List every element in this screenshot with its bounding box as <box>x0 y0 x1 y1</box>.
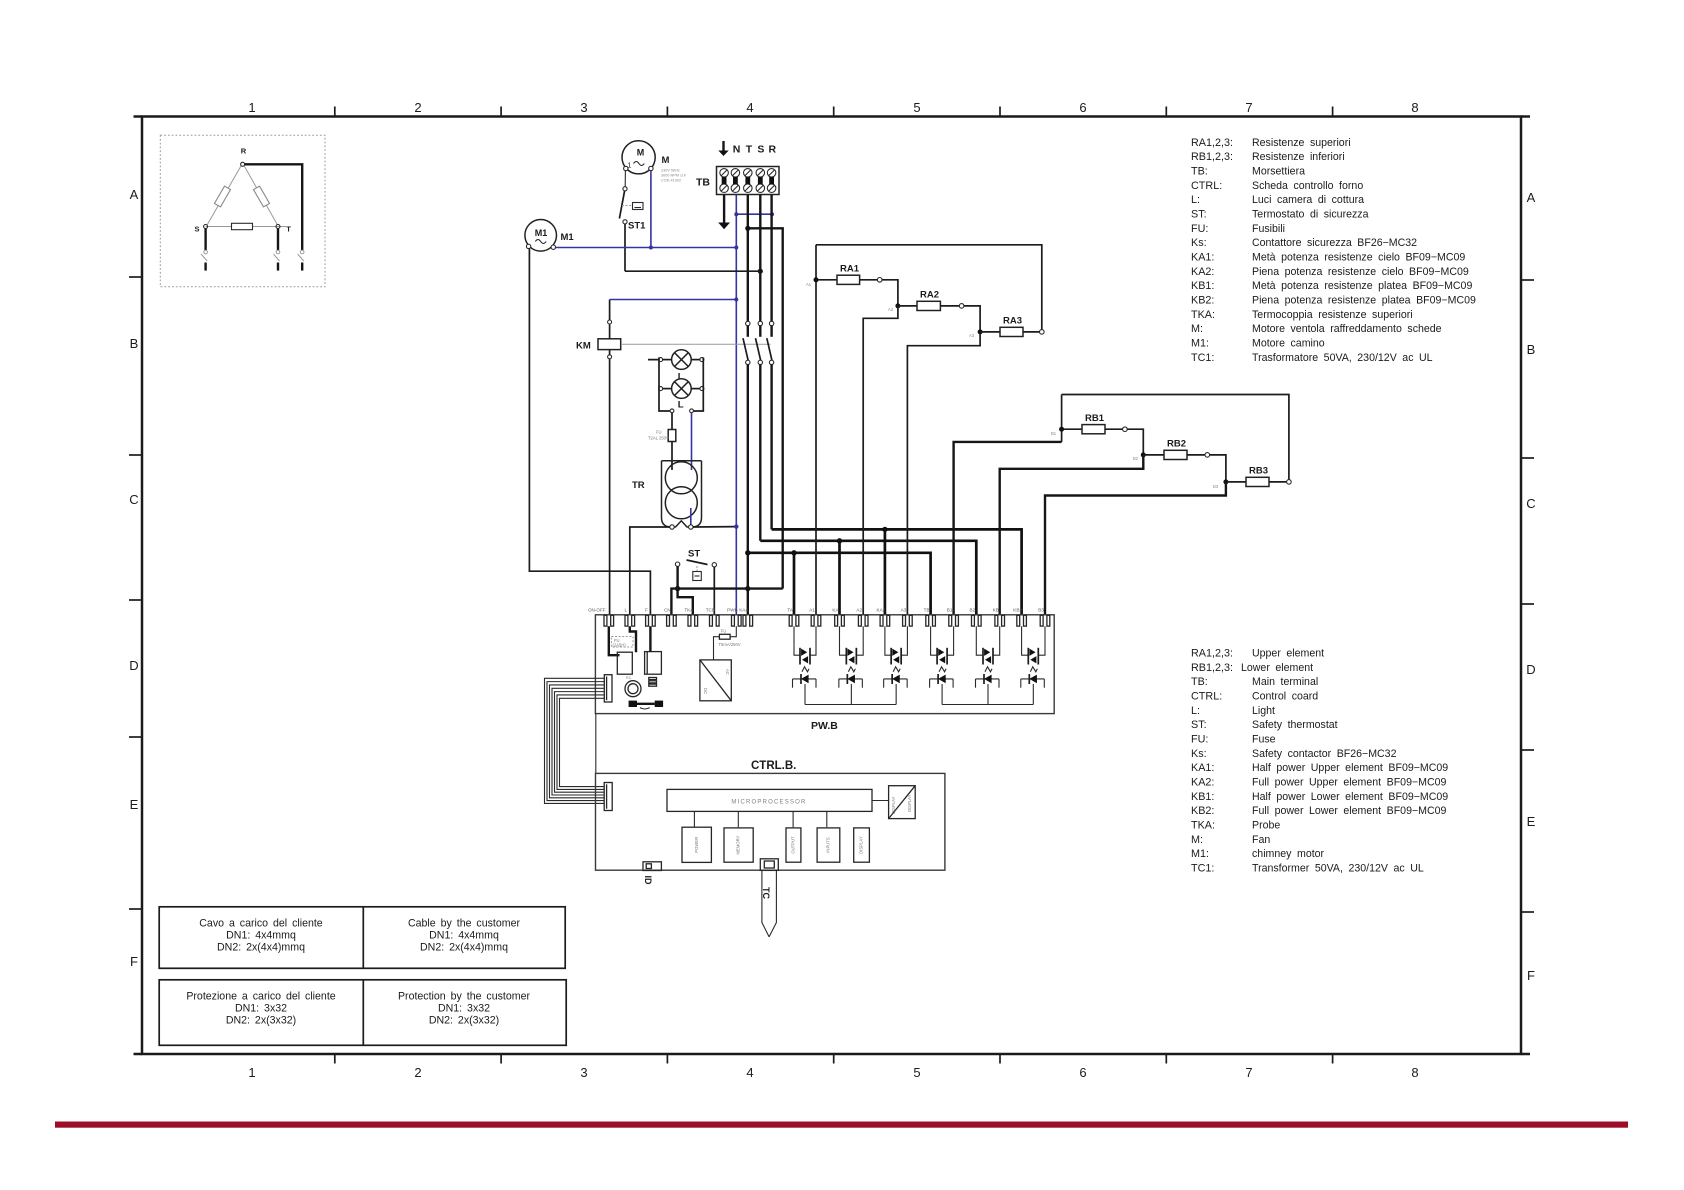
terminal B3 on PW.B <box>1040 615 1043 626</box>
ribbon connector on CTRL.B <box>604 783 612 811</box>
terminal L on PW.B <box>625 615 628 626</box>
gate of B2 <box>985 667 992 672</box>
wire ST1 down <box>624 224 626 271</box>
pin TR secondary right <box>689 525 693 529</box>
bus of B-side triacs <box>942 704 1033 706</box>
lamp lead wires <box>663 359 672 361</box>
svg-text:T: T <box>286 225 291 234</box>
svg-text:KA: KA <box>832 608 839 613</box>
svg-text:ON-OFF: ON-OFF <box>588 608 606 613</box>
svg-text:KB2:: KB2: <box>1191 805 1214 817</box>
wire TR left to L terminal <box>630 527 670 615</box>
svg-text:RB1: RB1 <box>1085 413 1105 424</box>
wire phase run lower (pole1) <box>748 553 931 615</box>
contactor pole 3 <box>769 321 773 325</box>
capacitor stack icon <box>649 678 657 680</box>
svg-text:COD.41302: COD.41302 <box>661 179 681 183</box>
relay K2 box <box>645 652 662 675</box>
resistor RB1 <box>1064 428 1082 430</box>
svg-text:INPUTS: INPUTS <box>826 837 831 853</box>
gate of B3 <box>1030 667 1037 672</box>
svg-text:TKA:: TKA: <box>1191 309 1215 321</box>
svg-text:A3: A3 <box>901 608 907 613</box>
wire S phase down to contactor <box>759 195 761 322</box>
wire B3 drop to bus <box>1032 684 1034 705</box>
svg-text:5: 5 <box>913 100 920 115</box>
ID jumper <box>643 862 661 871</box>
svg-text:RB2: RB2 <box>1167 439 1186 450</box>
svg-text:PW.B: PW.B <box>811 720 838 732</box>
wire L terminal into relay <box>630 626 636 652</box>
svg-text:KA2:: KA2: <box>1191 777 1214 789</box>
svg-text:Protection by the customer: Protection by the customer <box>398 991 530 1003</box>
svg-text:R: R <box>769 144 777 156</box>
svg-text:Probe: Probe <box>1252 820 1280 832</box>
svg-text:Motore camino: Motore camino <box>1252 338 1325 350</box>
lamp bracket left <box>648 357 672 411</box>
wire B3 jog down <box>1045 482 1226 615</box>
safety thermostat ST <box>675 562 679 566</box>
cable spec box (Italian) <box>159 907 565 969</box>
resistor RA2 <box>898 305 917 307</box>
terminal TKA on PW.B <box>688 615 691 626</box>
svg-text:RA3: RA3 <box>1003 316 1022 327</box>
svg-text:OUTPUT: OUTPUT <box>791 836 796 854</box>
svg-text:B3: B3 <box>1213 484 1219 489</box>
disconnect blade at x=278 <box>276 250 280 254</box>
svg-text:L: L <box>678 400 684 411</box>
microprocessor box <box>667 789 872 811</box>
svg-text:T2AL 250V: T2AL 250V <box>648 436 669 441</box>
svg-text:MEMORY: MEMORY <box>736 835 741 854</box>
svg-text:FU: FU <box>721 629 727 634</box>
svg-text:T5mA/250V: T5mA/250V <box>719 642 741 647</box>
svg-text:Upper element: Upper element <box>1252 648 1324 660</box>
svg-text:D: D <box>129 658 138 673</box>
svg-text:ID: ID <box>643 876 653 886</box>
svg-text:C: C <box>1526 496 1535 511</box>
svg-text:TKA:: TKA: <box>1191 820 1215 832</box>
svg-text:RA2: RA2 <box>920 290 939 301</box>
power board PW.B <box>595 615 1054 714</box>
svg-text:DISPLAY: DISPLAY <box>859 836 864 854</box>
triac module B1 <box>931 626 938 655</box>
svg-text:2: 2 <box>414 1065 421 1080</box>
ribbon connector on PW.B <box>604 675 612 702</box>
wire RB1 to node B2 <box>1127 429 1143 452</box>
svg-text:4: 4 <box>746 100 753 115</box>
earth symbol above TB <box>722 141 724 151</box>
svg-text:A1: A1 <box>806 282 812 287</box>
motor M (fan) <box>622 141 655 174</box>
svg-text:DISPLAY: DISPLAY <box>907 794 912 812</box>
svg-text:Transformer 50VA, 230/12V ac U: Transformer 50VA, 230/12V ac UL <box>1252 863 1424 875</box>
svg-text:S: S <box>757 144 764 156</box>
resistor RA1 <box>818 279 837 281</box>
probe TC <box>762 870 777 936</box>
svg-text:B1: B1 <box>1051 431 1057 436</box>
svg-text:ST:: ST: <box>1191 209 1207 221</box>
svg-text:Protezione a carico del client: Protezione a carico del cliente <box>186 991 335 1003</box>
svg-text:B: B <box>1527 342 1536 357</box>
svg-text:Piena potenza resistenze plate: Piena potenza resistenze platea BF09−MC0… <box>1252 295 1476 307</box>
wire RA2 to node A3 <box>964 306 980 330</box>
svg-text:DC: DC <box>703 688 708 694</box>
display box on CTRL.B <box>889 786 916 819</box>
svg-text:4: 4 <box>746 1065 753 1080</box>
jumper pads <box>629 701 637 707</box>
wire ST left to bus and TKA terminal <box>678 566 693 614</box>
svg-text:TB: TB <box>924 608 930 613</box>
svg-text:DN1: 3x32: DN1: 3x32 <box>438 1003 490 1015</box>
resistor RA3 <box>980 331 1000 333</box>
svg-text:Morsettiera: Morsettiera <box>1252 166 1305 178</box>
terminal A1 on PW.B <box>811 615 814 626</box>
svg-text:Piena potenza resistenze cielo: Piena potenza resistenze cielo BF09−MC09 <box>1252 266 1469 278</box>
svg-text:Fan: Fan <box>1252 834 1270 846</box>
svg-text:Ks:: Ks: <box>1191 748 1207 760</box>
wire RB2 to node B3 <box>1210 455 1226 480</box>
wire A3 jog down <box>907 332 980 615</box>
svg-text:Cavo a carico del cliente: Cavo a carico del cliente <box>199 918 323 930</box>
svg-text:Cable by the customer: Cable by the customer <box>408 918 520 930</box>
svg-text:Safety thermostat: Safety thermostat <box>1252 719 1338 731</box>
svg-text:M: M <box>662 155 670 166</box>
safety bus wire <box>671 589 782 615</box>
svg-text:Main terminal: Main terminal <box>1252 676 1318 688</box>
svg-text:Lower element: Lower element <box>1241 662 1313 674</box>
module DISPLAY on CTRL.B <box>854 828 870 862</box>
terminal block TB <box>717 167 780 195</box>
svg-text:M1:: M1: <box>1191 338 1209 350</box>
terminal CN on PW.B <box>667 615 670 626</box>
wire lamps to fuse FU <box>671 413 673 430</box>
svg-text:DN2: 2x(3x32): DN2: 2x(3x32) <box>226 1015 296 1027</box>
wire pole2 output down <box>759 365 761 541</box>
svg-text:8: 8 <box>1411 100 1418 115</box>
svg-text:MICROPROCESSOR: MICROPROCESSOR <box>731 800 806 806</box>
gate of A1 <box>802 667 809 672</box>
svg-text:RA1: RA1 <box>840 264 860 275</box>
wire micro to module <box>826 811 828 827</box>
terminal TCB on PW.B <box>710 615 713 626</box>
svg-text:A: A <box>1527 190 1536 205</box>
terminal TA on PW.B <box>789 615 792 626</box>
svg-text:5: 5 <box>913 1065 920 1080</box>
svg-text:E: E <box>130 797 139 812</box>
svg-text:KM: KM <box>576 341 591 352</box>
svg-text:Light: Light <box>1252 705 1275 717</box>
svg-text:D: D <box>1526 662 1535 677</box>
svg-text:8: 8 <box>1411 1065 1418 1080</box>
svg-text:FU: FU <box>656 430 662 435</box>
svg-text:L:: L: <box>1191 705 1200 717</box>
svg-text:FU:: FU: <box>1191 223 1208 235</box>
opto diode of A2 <box>839 678 863 680</box>
fuse FU on PW.B top <box>730 626 736 637</box>
svg-text:2: 2 <box>414 100 421 115</box>
svg-text:1: 1 <box>248 100 255 115</box>
svg-text:RA1,2,3:: RA1,2,3: <box>1191 648 1233 660</box>
svg-text:ST1: ST1 <box>628 221 646 232</box>
svg-text:3: 3 <box>580 100 587 115</box>
svg-text:KB2: KB2 <box>1013 608 1022 613</box>
opto diode of A3 <box>884 678 908 680</box>
opto diode of B2 <box>976 678 1000 680</box>
svg-text:Luci camera di cottura: Luci camera di cottura <box>1252 194 1364 206</box>
svg-text:CTRL:: CTRL: <box>1191 180 1222 192</box>
svg-text:M1:: M1: <box>1191 848 1209 860</box>
control board CTRL.B <box>596 773 945 870</box>
svg-text:N: N <box>733 144 741 156</box>
svg-text:RB1,2,3:: RB1,2,3: <box>1191 662 1233 674</box>
terminal KB2 on PW.B <box>1017 615 1020 626</box>
svg-text:TC: TC <box>761 887 771 899</box>
svg-text:KB1:: KB1: <box>1191 280 1214 292</box>
wire fuse to rectifier <box>714 637 720 660</box>
wire ground terminal down to earth <box>723 195 725 223</box>
wire N blue stub to R column <box>736 213 772 215</box>
contactor pole 1 <box>746 321 750 325</box>
wire N blue main vertical <box>735 195 737 615</box>
svg-text:Half power Lower element BF09−: Half power Lower element BF09−MC09 <box>1252 791 1448 803</box>
wire M1 right blue to N <box>556 247 737 249</box>
triac module A3 <box>885 626 891 655</box>
svg-text:Safety contactor BF26−MC32: Safety contactor BF26−MC32 <box>1252 748 1397 760</box>
terminal B1 on PW.B <box>949 615 952 626</box>
svg-text:POWER: POWER <box>694 837 699 853</box>
svg-text:C: C <box>129 492 138 507</box>
delta winding R-S (resistor) <box>207 166 241 224</box>
svg-text:Full power Lower element BF09−: Full power Lower element BF09−MC09 <box>1252 805 1447 817</box>
svg-text:DN2: 2x(4x4)mmq: DN2: 2x(4x4)mmq <box>420 942 508 954</box>
svg-text:230V 50Hz: 230V 50Hz <box>661 169 680 173</box>
svg-text:PWB: PWB <box>727 608 737 613</box>
svg-text:ST: ST <box>688 549 700 560</box>
delta winding S-T (resistor) <box>206 226 286 228</box>
svg-text:B: B <box>130 336 139 351</box>
svg-text:K1: K1 <box>626 675 632 680</box>
svg-text:Motore ventola raffreddamento: Motore ventola raffreddamento schede <box>1252 323 1442 335</box>
wire RA loop top <box>816 245 1042 332</box>
svg-text:E: E <box>1527 814 1536 829</box>
wire KA drop <box>838 541 841 615</box>
wire A3 drop to bus <box>895 684 897 705</box>
protection spec box (Italian) <box>159 980 566 1046</box>
wire board link <box>595 714 597 774</box>
wire RA1 to node A2 <box>882 280 898 304</box>
gate of B1 <box>939 667 946 672</box>
svg-text:KA1:: KA1: <box>1191 762 1214 774</box>
svg-text:Resistenze superiori: Resistenze superiori <box>1252 137 1351 149</box>
ribbon cable PW.B to CTRL.B <box>545 678 605 803</box>
wire ST right to TCB terminal <box>713 567 715 615</box>
svg-text:Contattore sicurezza BF26−MC32: Contattore sicurezza BF26−MC32 <box>1252 237 1417 249</box>
wire RB loop top <box>1062 395 1289 482</box>
svg-text:Fusibili: Fusibili <box>1252 223 1285 235</box>
opto diode of B3 <box>1021 678 1045 680</box>
thermostat ST1 <box>623 187 627 191</box>
svg-text:DN1: 3x32: DN1: 3x32 <box>235 1003 287 1015</box>
svg-text:TC1:: TC1: <box>1191 352 1214 364</box>
svg-text:6: 6 <box>1079 100 1086 115</box>
wire phase run middle (pole2) <box>760 541 976 615</box>
svg-text:Metà potenza resistenze platea: Metà potenza resistenze platea BF09−MC09 <box>1252 280 1472 292</box>
svg-text:KA2:: KA2: <box>1191 266 1214 278</box>
svg-text:Metà potenza resistenze cielo: Metà potenza resistenze cielo BF09−MC09 <box>1252 252 1465 264</box>
lamp bracket right <box>692 357 704 411</box>
svg-text:Control coard: Control coard <box>1252 691 1318 703</box>
svg-text:CTRL.B.: CTRL.B. <box>751 760 796 772</box>
opto diode of B1 <box>930 678 954 680</box>
wire below S with disconnect break <box>204 229 206 251</box>
terminal A2 on PW.B <box>858 615 861 626</box>
svg-text:A2: A2 <box>888 307 894 312</box>
relay K1 box <box>617 652 632 674</box>
pin M1 right <box>551 245 555 249</box>
wire R phase down to contactor <box>770 195 772 322</box>
svg-text:RB1,2,3:: RB1,2,3: <box>1191 151 1233 163</box>
svg-text:L:: L: <box>1191 194 1200 206</box>
svg-text:Termocoppia resistenze superio: Termocoppia resistenze superiori <box>1252 309 1413 321</box>
wire S branch to M circuit <box>625 270 760 272</box>
svg-text:3: 3 <box>580 1065 587 1080</box>
contactor pole 2 <box>758 321 762 325</box>
disconnect blade at x=302.2 <box>300 250 304 254</box>
probe TC connector <box>760 859 778 871</box>
wire FU to TR <box>671 442 673 471</box>
svg-text:M1: M1 <box>535 228 548 238</box>
pin M1 left <box>526 244 530 248</box>
svg-text:DN1: 4x4mmq: DN1: 4x4mmq <box>429 930 499 942</box>
svg-text:DISPLAY: DISPLAY <box>891 796 896 814</box>
svg-text:M1: M1 <box>561 232 575 243</box>
relay coil symbol <box>625 681 641 697</box>
svg-text:KAA: KAA <box>739 608 749 613</box>
svg-text:A3: A3 <box>969 333 975 338</box>
wire B1 vertical top <box>1061 395 1063 442</box>
fuse FU <box>668 430 676 442</box>
gate of A3 <box>893 667 900 672</box>
wire T branch to safety bus <box>748 228 783 588</box>
wire M left to ST1 <box>624 171 626 187</box>
bus of A-side triacs <box>805 704 896 706</box>
fuse box dashed on PW.B <box>611 637 633 648</box>
svg-text:F: F <box>130 954 138 969</box>
terminal KAA on PW.B <box>743 615 746 626</box>
svg-text:TCB: TCB <box>706 608 715 613</box>
wire A2 jog down <box>863 306 898 615</box>
svg-text:KB1:: KB1: <box>1191 791 1214 803</box>
svg-text:Half power Upper element BF09−: Half power Upper element BF09−MC09 <box>1252 762 1448 774</box>
three-phase delta connection insert box <box>160 135 325 286</box>
svg-text:M:: M: <box>1191 834 1203 846</box>
triac module A2 <box>840 626 847 655</box>
transformer TR <box>662 461 702 527</box>
wire KM coil down to ON-OFF terminal <box>609 350 611 615</box>
wire B2 jog down <box>1000 455 1144 615</box>
svg-text:F: F <box>645 608 648 613</box>
svg-text:B2: B2 <box>1133 456 1139 461</box>
svg-text:B1: B1 <box>947 608 953 613</box>
svg-text:Resistenze inferiori: Resistenze inferiori <box>1252 151 1345 163</box>
pin TR secondary left <box>670 525 674 529</box>
wire TR right to N <box>693 526 736 528</box>
svg-text:7: 7 <box>1245 100 1252 115</box>
svg-text:Termostato di sicurezza: Termostato di sicurezza <box>1252 209 1369 221</box>
svg-text:Fuse: Fuse <box>1252 734 1276 746</box>
wire B2 drop to bus <box>987 684 989 705</box>
svg-text:TB: TB <box>696 177 710 189</box>
terminal F on PW.B <box>646 615 649 626</box>
wire R to right drop <box>245 164 303 250</box>
svg-text:TR: TR <box>632 480 645 491</box>
svg-text:TA: TA <box>787 608 793 613</box>
terminal B2 on PW.B <box>972 615 975 626</box>
wire T phase down to contactor <box>747 195 749 322</box>
svg-text:TB:: TB: <box>1191 676 1208 688</box>
svg-text:(2A5H): (2A5H) <box>613 643 627 648</box>
module INPUTS on CTRL.B <box>817 828 840 862</box>
disconnect blade at x=205.6 <box>204 250 208 254</box>
svg-text:Full power Upper element BF09−: Full power Upper element BF09−MC09 <box>1252 777 1447 789</box>
terminal KA2 on PW.B <box>880 615 883 626</box>
svg-text:M: M <box>637 148 645 158</box>
delta winding R-T (resistor) <box>244 166 277 224</box>
wire micro to display <box>872 800 889 802</box>
module OUTPUT on CTRL.B <box>786 828 801 862</box>
lamp L upper <box>672 350 692 370</box>
wire micro to module <box>792 811 794 827</box>
svg-text:B3: B3 <box>1038 608 1044 613</box>
svg-text:ST:: ST: <box>1191 719 1207 731</box>
terminal TB on PW.B <box>926 615 929 626</box>
svg-text:CN: CN <box>664 608 671 613</box>
wire KM coil top to N (blue) <box>609 300 611 339</box>
wire A2 drop to bus <box>850 684 852 705</box>
resistor RB2 <box>1143 454 1164 456</box>
wire below T with disconnect break <box>277 229 279 251</box>
svg-text:B2: B2 <box>969 608 975 613</box>
wire micro to module <box>693 811 695 827</box>
svg-text:KB: KB <box>993 608 999 613</box>
svg-text:A2: A2 <box>856 608 862 613</box>
wire ON-OFF terminal into relay K1 <box>609 626 620 655</box>
wire TA drop <box>793 553 796 615</box>
svg-text:DN2: 2x(4x4)mmq: DN2: 2x(4x4)mmq <box>217 942 305 954</box>
triac module B2 <box>976 626 983 655</box>
svg-text:DN2: 2x(3x32): DN2: 2x(3x32) <box>429 1015 499 1027</box>
svg-text:6: 6 <box>1079 1065 1086 1080</box>
svg-text:RB3: RB3 <box>1249 466 1268 477</box>
wire KA2 drop <box>884 529 887 614</box>
wire A1 drop to bus <box>804 684 806 705</box>
terminal ON-OFF on PW.B <box>604 615 607 626</box>
gate of A2 <box>848 667 855 672</box>
pin M right <box>649 166 653 170</box>
svg-text:Trasformatore 50VA, 230/12V ac: Trasformatore 50VA, 230/12V ac UL <box>1252 352 1433 364</box>
svg-text:S: S <box>194 225 199 234</box>
svg-text:A: A <box>130 187 139 202</box>
wire micro to module <box>737 811 739 827</box>
motor M1 (chimney) <box>525 220 557 252</box>
svg-text:DN1: 4x4mmq: DN1: 4x4mmq <box>226 930 296 942</box>
terminal A3 on PW.B <box>903 615 906 626</box>
svg-text:7: 7 <box>1245 1065 1252 1080</box>
svg-text:A1: A1 <box>809 608 815 613</box>
svg-text:KA2: KA2 <box>877 608 886 613</box>
terminal KB on PW.B <box>995 615 998 626</box>
